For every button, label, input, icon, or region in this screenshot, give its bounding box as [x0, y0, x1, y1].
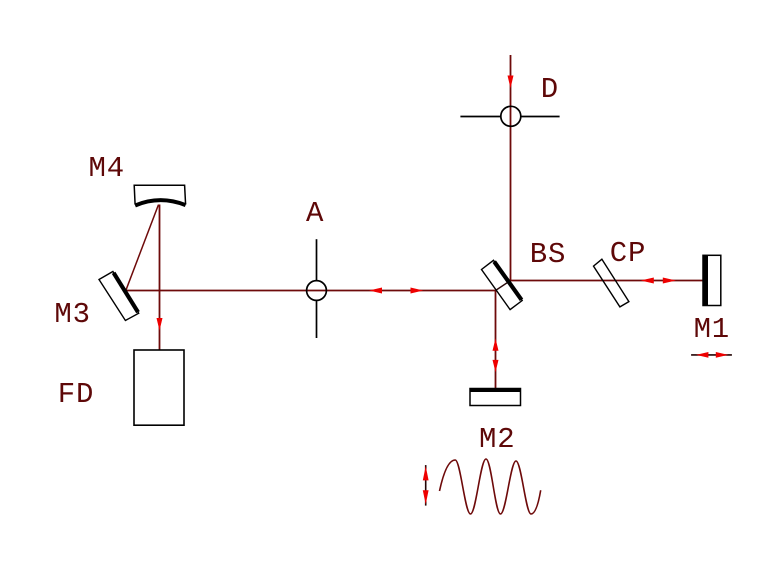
- arrow down on input beam at D: [508, 76, 514, 89]
- detector D circle: [460, 106, 559, 126]
- wire: beam BS to M1 horizontal: [511, 280, 704, 282]
- compensator plate CP: [594, 259, 629, 307]
- arrow left on beam A-BS: [369, 288, 382, 294]
- mirror M2: [470, 389, 521, 406]
- wire: beam inside BS connecting junctions: [496, 281, 511, 291]
- double arrow under M1: [691, 352, 732, 358]
- svg-text:FD: FD: [58, 378, 94, 411]
- photodetector FD box: [134, 350, 184, 425]
- mirror M1: [703, 255, 721, 305]
- mirror M3: [99, 272, 139, 321]
- double arrow beside sine wave: [423, 465, 429, 506]
- arrow down on beam to FD: [157, 318, 163, 331]
- svg-text:A: A: [306, 197, 324, 230]
- aperture A circle: [307, 239, 327, 338]
- wire: beam M4 down to FD: [159, 202, 161, 350]
- arrow left on beam CP-M1: [641, 278, 654, 284]
- wire: beam M3 to BS horizontal: [126, 290, 496, 292]
- svg-text:BS: BS: [530, 238, 566, 271]
- mirror M4 curved: [134, 185, 185, 205]
- sine wave M2 motion: [440, 459, 541, 514]
- wire: beam M3 to M4 diagonal: [126, 202, 160, 291]
- arrow right on beam A-BS: [411, 288, 424, 294]
- svg-text:CP: CP: [610, 237, 646, 270]
- arrow up on beam BS-M2: [493, 338, 499, 350]
- beamsplitter BS: [482, 260, 523, 309]
- svg-text:D: D: [541, 73, 559, 106]
- svg-text:M3: M3: [54, 298, 90, 331]
- arrow right on beam CP-M1: [663, 278, 676, 284]
- wire: beam BS down to M2: [495, 291, 497, 390]
- svg-text:M2: M2: [479, 423, 515, 456]
- wire: input beam vertical from top to BS: [510, 55, 512, 281]
- svg-text:M1: M1: [694, 313, 730, 346]
- arrow down on beam BS-M2: [493, 360, 499, 372]
- svg-text:M4: M4: [89, 152, 125, 185]
